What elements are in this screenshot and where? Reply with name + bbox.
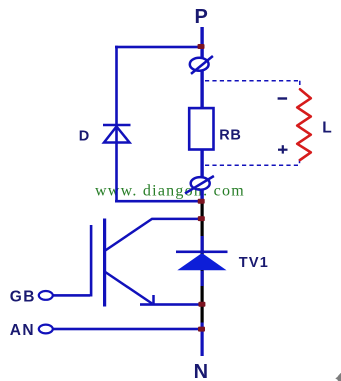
- wire left branch vertical: [115, 46, 118, 202]
- terminal AN circle: [39, 325, 53, 334]
- svg-text:N: N: [194, 361, 208, 381]
- wire AN to node: [53, 328, 202, 331]
- wire IGBT emitter diagonal: [105, 272, 153, 304]
- black bus wire: [201, 203, 204, 323]
- wire bottom terminal to node: [200, 189, 203, 202]
- junction node AN: [198, 327, 205, 332]
- wire RB to bottom terminal: [200, 150, 203, 178]
- wire node to N: [201, 323, 204, 357]
- junction node collector: [198, 216, 205, 221]
- wire TV1 bottom lead: [201, 271, 204, 286]
- terminal GB circle: [39, 291, 53, 300]
- svg-text:L: L: [322, 119, 331, 136]
- wire terminal to RB: [200, 70, 203, 109]
- wire TV1 top lead: [201, 236, 204, 251]
- wire top branch horizontal: [115, 46, 202, 49]
- label plus: [278, 145, 288, 153]
- thyristor TV1: [176, 251, 228, 271]
- junction node top: [198, 44, 205, 49]
- wire IGBT emitter arrow tick: [152, 295, 155, 305]
- terminal top (circle with slash): [190, 56, 213, 74]
- transistor IGBT body bar: [103, 219, 106, 307]
- wire bottom branch horizontal: [115, 200, 202, 203]
- svg-text:AN: AN: [10, 322, 35, 339]
- junction node emitter: [198, 302, 205, 307]
- label minus: [278, 97, 288, 99]
- svg-text:RB: RB: [219, 128, 241, 144]
- dashed link top: [205, 81, 300, 89]
- svg-text:P: P: [195, 6, 208, 28]
- dashed link bottom: [205, 159, 300, 165]
- inductor L coil: [297, 89, 311, 160]
- wire P to top terminal: [200, 27, 203, 58]
- wire IGBT emitter horizontal: [140, 303, 202, 306]
- diode D: [103, 125, 131, 143]
- cursor artifact: [335, 373, 341, 381]
- wire IGBT collector: [105, 219, 202, 251]
- terminal bottom (circle with slash): [185, 176, 214, 193]
- junction node below terminal: [198, 199, 205, 204]
- svg-text:TV1: TV1: [239, 255, 269, 271]
- svg-text:D: D: [79, 128, 89, 144]
- transistor IGBT gate bar: [90, 225, 93, 297]
- svg-text:GB: GB: [10, 288, 36, 305]
- wire gate to GB: [53, 294, 90, 297]
- resistor RB: [189, 108, 213, 149]
